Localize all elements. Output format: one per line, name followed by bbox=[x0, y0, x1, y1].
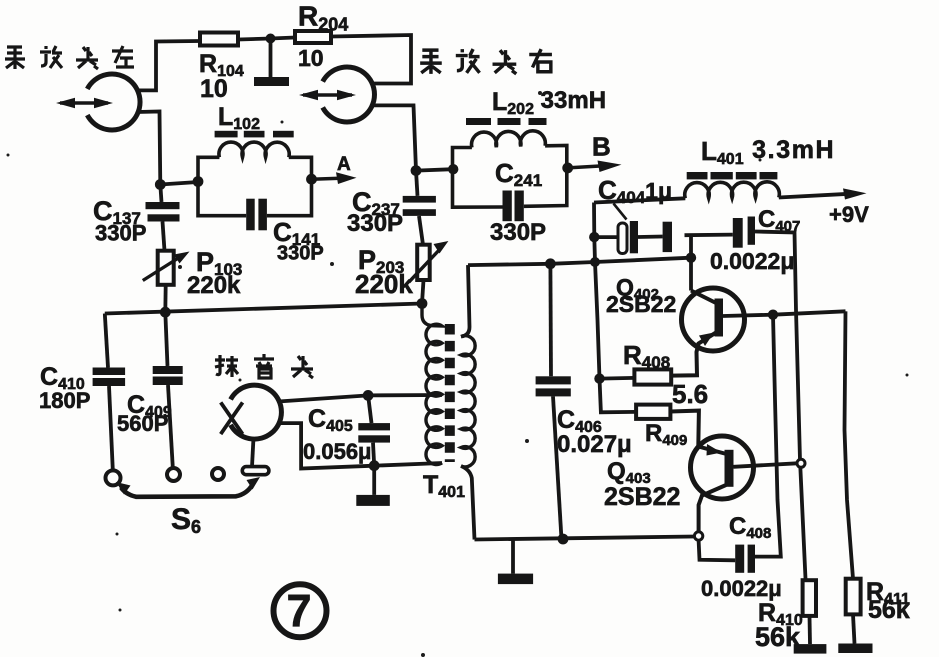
svg-text:5.6: 5.6 bbox=[672, 379, 708, 409]
svg-text:10: 10 bbox=[298, 45, 324, 71]
wire junction to R204 bbox=[271, 38, 296, 39]
capacitor C408 bbox=[735, 545, 755, 573]
wire bus corner down to T401 secondary top bbox=[461, 265, 470, 336]
wire node down to R409 left lead bbox=[600, 379, 637, 413]
potentiometer P203 bbox=[409, 241, 449, 282]
switch S6 contact 2 bbox=[167, 468, 180, 481]
svg-text:330P: 330P bbox=[347, 210, 403, 237]
wire erase head bottom stub loop bbox=[278, 423, 374, 468]
record/play head right bbox=[299, 67, 374, 122]
wire C404 tee to C407 bbox=[685, 233, 733, 237]
svg-text:56k: 56k bbox=[755, 622, 801, 652]
capacitor C141 bbox=[246, 199, 267, 231]
wire R410 bottom to ground bbox=[808, 616, 812, 644]
svg-text:C241: C241 bbox=[495, 158, 542, 190]
node B arrow bbox=[568, 161, 622, 173]
switch S6 bar contact bbox=[242, 467, 269, 475]
svg-text:C408: C408 bbox=[729, 513, 771, 542]
record/play head left bbox=[56, 74, 140, 130]
svg-text:A: A bbox=[337, 154, 351, 175]
wire C405 node to ground bbox=[372, 466, 376, 495]
svg-text:R408: R408 bbox=[623, 340, 670, 372]
wire oscillator bus bbox=[468, 258, 691, 265]
svg-text:S6: S6 bbox=[171, 503, 201, 537]
node A arrow bbox=[312, 172, 357, 184]
resistor R204 bbox=[295, 31, 331, 43]
node open circle baseline bbox=[694, 532, 702, 540]
node baseline/C406 bbox=[558, 534, 569, 545]
ground top bbox=[254, 77, 289, 86]
wire node to L202 tank left bbox=[416, 169, 453, 170]
L401 core dashes bbox=[687, 172, 778, 179]
node bus/C404 feed bbox=[590, 257, 600, 267]
ground R411 bbox=[838, 644, 872, 654]
wire R104 to junction bbox=[238, 39, 271, 40]
wire Q402 base out to right rail bbox=[723, 311, 846, 316]
C404 label pointer bbox=[614, 204, 627, 220]
svg-text:T401: T401 bbox=[423, 471, 465, 501]
wire right head bottom stub down to node bbox=[371, 105, 416, 170]
wire C405 to lower node bbox=[373, 443, 374, 466]
wire left head bottom stub down to node bbox=[138, 112, 161, 185]
resistor R411 bbox=[846, 579, 861, 615]
capacitor C405 bbox=[358, 423, 390, 442]
capacitor C409 bbox=[153, 366, 183, 385]
transistor Q403 bbox=[691, 436, 754, 499]
wire bus corner down to Q402 collector bbox=[689, 258, 693, 291]
text 抹音头 erase head bbox=[215, 354, 313, 378]
node L202 left bbox=[448, 164, 458, 174]
node P103 bottom bbox=[160, 307, 171, 318]
scan specks bbox=[7, 154, 10, 157]
node erase head / C405 top bbox=[363, 390, 374, 401]
wire R104-R204 junction ground stub bbox=[269, 39, 273, 78]
wire erase head to switch bar bbox=[252, 438, 254, 467]
node Q402 output bbox=[768, 310, 778, 320]
wire C404 mid bbox=[638, 235, 663, 239]
svg-text:L401 3.3mH: L401 3.3mH bbox=[701, 136, 835, 168]
wire bus feed down to R408 node bbox=[595, 262, 600, 379]
wire node into C405 bbox=[368, 395, 371, 423]
resistor R410 bbox=[803, 580, 816, 616]
wire P203 to node bbox=[422, 280, 424, 304]
svg-text:330P: 330P bbox=[277, 243, 324, 265]
svg-text:220k: 220k bbox=[187, 272, 241, 299]
+9V arrow head bbox=[843, 188, 867, 199]
svg-text:0.0022μ: 0.0022μ bbox=[710, 248, 794, 274]
wire R204 to right head top stub bbox=[331, 35, 411, 84]
ground below C405 bbox=[356, 495, 390, 506]
node R408 left bbox=[594, 373, 604, 383]
circled 7 figure number bbox=[274, 584, 327, 637]
wire C409 to switch contact 2 bbox=[168, 385, 173, 468]
wire R411 bottom to ground bbox=[853, 614, 855, 643]
svg-text:7: 7 bbox=[286, 585, 311, 636]
wire node down into C237 bbox=[416, 171, 418, 196]
wire corner down to C410 bbox=[105, 314, 108, 368]
svg-text:180P: 180P bbox=[39, 388, 90, 413]
node L102 left bbox=[193, 176, 204, 187]
L202 core dashes bbox=[466, 118, 547, 125]
capacitor C407 bbox=[733, 217, 755, 248]
svg-text:2SB22: 2SB22 bbox=[606, 291, 676, 317]
wire lower node to T401 primary bottom bbox=[374, 463, 442, 466]
wire Q403 emitter down to open node bbox=[699, 485, 726, 532]
node P203 bottom / T401 top bbox=[417, 298, 428, 309]
wire L401 corner down to C404 node bbox=[594, 203, 595, 263]
wire top rail left head to R104 bbox=[137, 41, 200, 90]
svg-text:R409: R409 bbox=[645, 420, 687, 449]
svg-text:0.0022μ: 0.0022μ bbox=[701, 576, 782, 601]
erase head bbox=[221, 385, 282, 439]
wire C137 to P103 bbox=[163, 222, 165, 251]
capacitor C404 electrolytic bbox=[618, 221, 672, 254]
svg-text:0.027μ: 0.027μ bbox=[557, 431, 632, 458]
svg-text:C4041μ: C4041μ bbox=[598, 175, 672, 207]
wire C406 to baseline bbox=[553, 396, 562, 539]
capacitor C237 bbox=[403, 196, 436, 216]
svg-text:R204: R204 bbox=[298, 1, 348, 35]
svg-text:220k: 220k bbox=[355, 269, 413, 299]
svg-text:L102: L102 bbox=[218, 103, 260, 133]
wire R408 node left lead bbox=[600, 376, 635, 381]
wire P103 to bottom node bbox=[163, 285, 167, 312]
transformer T401 secondary winding bbox=[461, 336, 475, 467]
wire tee drop to bus corner bbox=[689, 235, 693, 258]
potentiometer P103 bbox=[143, 251, 190, 285]
wire C407 right corner down to R410 bbox=[755, 232, 806, 579]
svg-text:330P: 330P bbox=[490, 219, 546, 246]
svg-text:560P: 560P bbox=[117, 411, 168, 436]
node C405 bottom bbox=[369, 460, 380, 471]
node L202 right bbox=[562, 163, 573, 174]
node C404 left bbox=[589, 232, 599, 242]
wire C410 to switch contact 1 bbox=[109, 386, 113, 470]
svg-text:56k: 56k bbox=[868, 596, 910, 624]
svg-text:330P: 330P bbox=[95, 221, 146, 246]
capacitor C137 bbox=[146, 202, 180, 222]
capacitor C406 bbox=[536, 376, 571, 396]
node left head / C137 bbox=[155, 179, 166, 190]
capacitor C410 bbox=[93, 368, 126, 387]
inductor L102 tank box bbox=[198, 142, 312, 216]
node bus corner / Q402 collector bbox=[686, 253, 696, 263]
wire node down to C409 bbox=[165, 312, 167, 366]
transformer T401 core bbox=[445, 324, 455, 462]
svg-text:+9V: +9V bbox=[829, 202, 869, 227]
svg-text:B: B bbox=[592, 132, 611, 162]
wire open node to C408 left bbox=[699, 540, 736, 560]
node Q403 base ring bbox=[797, 459, 805, 467]
ground R410 bbox=[794, 644, 827, 654]
wire long bottom rail P103 node to P203 node bbox=[105, 304, 422, 314]
resistor R104 bbox=[200, 33, 238, 46]
svg-text:L202 33mH: L202 33mH bbox=[492, 87, 606, 118]
switch S6 contact 3 bbox=[212, 468, 224, 480]
switch S6 contact 1 bbox=[106, 470, 121, 485]
node bus/C406 bbox=[545, 258, 556, 269]
wire +9V rail into L401 bbox=[594, 198, 685, 202]
svg-text:0.056μ: 0.056μ bbox=[303, 439, 372, 464]
svg-text:2SB22: 2SB22 bbox=[604, 483, 680, 511]
capacitor C241 bbox=[503, 191, 524, 222]
L102 core dashes bbox=[215, 131, 294, 138]
resistor R408 bbox=[634, 369, 671, 384]
wire bus to C406 bbox=[549, 264, 553, 377]
resistor R409 bbox=[636, 405, 670, 419]
ground baseline bbox=[498, 574, 533, 585]
svg-text:10: 10 bbox=[200, 75, 228, 103]
inductor L202 tank box bbox=[453, 131, 567, 207]
wire node down into C137 bbox=[160, 185, 161, 203]
wire output node down to C408 right bbox=[755, 315, 781, 557]
text 录放头左 record/play head left bbox=[5, 46, 134, 69]
transformer T401 primary winding bbox=[422, 304, 442, 465]
wire erase head top stub to node bbox=[278, 395, 368, 401]
transistor Q402 bbox=[671, 288, 744, 376]
wire baseline ground stub bbox=[511, 539, 515, 574]
wire C404 node left plate bbox=[594, 235, 618, 239]
wire T401 secondary bottom to baseline bbox=[461, 466, 475, 540]
wire Q403 base out bbox=[734, 463, 798, 467]
node right head / C237 bbox=[411, 165, 422, 176]
svg-text:C407: C407 bbox=[758, 206, 800, 235]
inductor L401 bbox=[685, 182, 780, 199]
wire bottom baseline bbox=[475, 537, 695, 540]
wire C237 to P203 bbox=[419, 216, 423, 245]
node L102 right bbox=[306, 174, 317, 185]
wire right rail down to R411 bbox=[845, 311, 854, 578]
wire L401 to +9V arrow bbox=[779, 194, 849, 198]
text 录放头右 record/play head right bbox=[420, 49, 552, 74]
node junction R104/R204 bbox=[266, 34, 276, 44]
wire R409 right to Q403 collector bbox=[670, 411, 726, 454]
wire node to T401 primary tap bbox=[368, 393, 442, 397]
switch S6 wiper bbox=[116, 477, 260, 497]
wire node to L102 tank left bbox=[160, 182, 198, 185]
svg-text:C405: C405 bbox=[308, 405, 353, 435]
